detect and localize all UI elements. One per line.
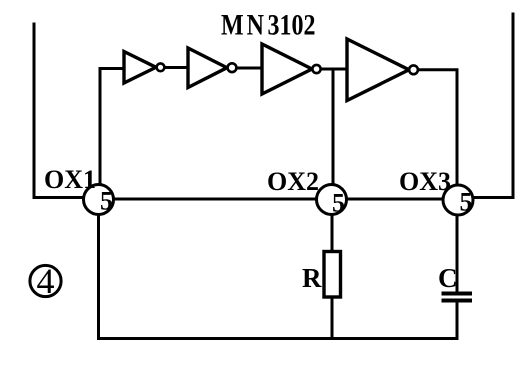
svg-text:5: 5: [332, 189, 345, 218]
svg-text:5: 5: [460, 188, 473, 217]
svg-text:5: 5: [100, 187, 113, 216]
svg-text:R: R: [302, 263, 322, 293]
svg-text:OX2: OX2: [267, 167, 319, 196]
svg-text:4: 4: [37, 261, 55, 301]
svg-text:C: C: [438, 263, 458, 293]
svg-text:OX1: OX1: [44, 165, 96, 194]
svg-text:OX3: OX3: [399, 167, 451, 196]
svg-text:MN3102: MN3102: [221, 8, 315, 41]
